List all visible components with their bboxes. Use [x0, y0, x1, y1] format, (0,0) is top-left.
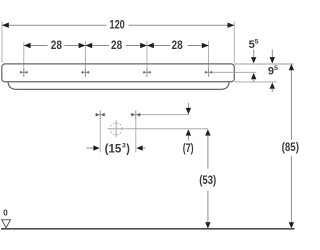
dimension 28 third segment line — [147, 43, 209, 48]
svg-text:28: 28 — [51, 40, 63, 52]
wire extension line right edge of basin up to 120 dim — [233, 22, 235, 63]
wire extension line hole 1 — [23, 42, 25, 77]
drill cross 2 in detail view — [131, 110, 142, 119]
wire extension below cross 1 — [99, 119, 101, 152]
value label (15 superscript 3) — [105, 143, 130, 156]
hole marker 1 on rim — [20, 68, 28, 76]
dimension 5.5 lower arrow — [251, 73, 256, 82]
value label 5 superscript 5 — [249, 38, 259, 51]
tap hole vertical centreline — [115, 120, 117, 137]
dimension (85) vertical line with arrows — [289, 64, 294, 229]
svg-text:120: 120 — [110, 20, 125, 32]
svg-text:(53): (53) — [199, 175, 216, 187]
tap hole dashed circle — [110, 123, 122, 135]
dimension 120 line — [2, 23, 234, 28]
drill cross 1 in detail view — [95, 110, 106, 119]
dimension 5.5 upper arrow — [251, 50, 256, 64]
hole marker 3 on rim — [143, 68, 151, 76]
wire rim bottom edge extension to the right (line C) — [234, 81, 276, 83]
wire extension line hole 4 — [208, 41, 210, 77]
dimension 28 second segment line — [85, 43, 147, 48]
svg-text:): ) — [126, 143, 130, 155]
svg-text:(15: (15 — [105, 143, 122, 155]
wire rim top edge extension to the right (line A) — [234, 63, 293, 65]
dimension (53) vertical line with arrows — [205, 129, 210, 228]
hole marker 4 on rim — [204, 68, 212, 76]
value label 9 superscript 5 — [268, 65, 278, 78]
dimension (15.3) left arrow — [86, 145, 99, 150]
wire extension line hole 3 — [146, 41, 148, 77]
svg-text:5: 5 — [274, 65, 278, 72]
dimension 28 first segment line — [24, 43, 86, 48]
dimension (7) lower arrow — [186, 129, 191, 140]
hole marker 2 on rim — [81, 68, 89, 76]
dimension (15.3) right arrow — [136, 145, 145, 150]
wire tap level line through circle centre (line 2) — [108, 128, 208, 130]
wire extension line left edge of basin up to 120 dim — [1, 22, 3, 63]
svg-text:28: 28 — [111, 40, 123, 52]
wire hole level line from cross 2 to (7) arrow (line 1) — [142, 114, 190, 116]
svg-text:0: 0 — [3, 208, 8, 218]
wire extension below cross 2 — [135, 119, 137, 152]
svg-text:5: 5 — [255, 38, 259, 45]
svg-text:(7): (7) — [183, 143, 194, 155]
dimension (7) upper arrow — [186, 103, 191, 115]
svg-text:28: 28 — [172, 40, 184, 52]
wire extension line hole 2 — [84, 41, 86, 77]
dimension 9.5 lower arrow — [270, 83, 275, 92]
wire hole centre extension to the right (line B) — [213, 71, 256, 73]
washbasin apron outline — [8, 82, 229, 89]
washbasin rim front view — [2, 64, 235, 82]
datum triangle symbol — [2, 220, 11, 228]
svg-text:(85): (85) — [282, 142, 300, 154]
floor line — [1, 228, 295, 230]
dimension 9.5 upper arrow — [270, 50, 275, 64]
